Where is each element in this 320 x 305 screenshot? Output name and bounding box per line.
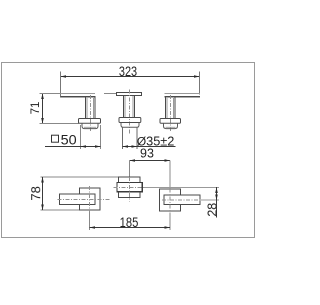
right valve square (plan view) [160,189,181,211]
svg-text:50: 50 [61,132,77,148]
extension line bottom of 71 [40,123,80,125]
dimension 323 arrows [61,75,200,78]
dimension 28 line [216,187,218,218]
dimension 71 arrows [41,94,44,124]
dimension square50 line with left shelf [45,146,101,148]
left lever (plan view) [60,194,96,205]
left handle flange (front view) [79,119,101,124]
right lever horizontal centerline / extension to 28 (plan view) [162,199,201,201]
dimension dia35 line with right shelf [123,146,176,148]
svg-text:185: 185 [120,215,139,230]
drawing border frame [2,63,255,238]
right lever (plan view) [164,195,200,205]
extension line 93 left (to plan view) [129,161,131,178]
spout body (plan view) [117,183,142,192]
left handle base inner line [84,126,96,128]
right handle flange (front view) [160,119,181,124]
spout horizontal axis line (plan view, extends to 28 dim) [114,187,145,189]
svg-text:93: 93 [140,147,154,161]
dimension 185 arrows [90,226,171,229]
left handle base ring (front view) [82,123,98,128]
dimension square50 extension left [80,125,82,149]
right handle base inner line [166,126,176,128]
right handle base ring (front view) [164,123,178,128]
left handle body (front view) [86,96,96,118]
svg-text:28: 28 [206,203,220,217]
spout tube left wall / extension [122,127,124,149]
spout plate (plan view) [119,177,140,198]
square symbol of square50 label [52,135,59,142]
spout nozzle lip line (front view) [104,93,117,95]
spout top plate (front view) [117,93,142,96]
left valve extension to 185 [89,212,91,230]
svg-text:78: 78 [28,186,43,200]
dimension 78 arrows [41,177,44,210]
right handle centerline [169,95,171,133]
dimension 323 line [61,76,200,78]
dimension dia35 arrows [123,145,138,148]
dimension 78 extension bottom [41,209,80,211]
dimension 78 extension top [41,176,120,178]
left handle lever (front view) [61,94,96,98]
dimension square50 arrows [81,145,101,148]
extension line left of 323 [60,72,62,98]
left valve vertical centerline (plan view) [89,186,91,212]
left handle centerline [89,95,91,133]
svg-text:71: 71 [30,102,42,115]
spout flange (front view) [119,118,141,123]
spout tube right wall / extension [136,127,138,149]
right handle body (front view) [166,96,176,118]
svg-text:323: 323 [119,64,137,80]
extension line top of 71 [40,93,63,95]
left lever horizontal centerline (plan view) [58,199,111,201]
dimension 78 line [42,177,44,210]
left valve square (plan view) [80,188,101,210]
dimension 93 line [130,160,171,162]
dimension 93 arrows [130,159,171,162]
extension line 93 right (to plan view) [169,161,171,189]
spout centerline [129,90,131,135]
right handle lever (front view) [165,94,201,98]
spout vertical centerline (plan view) [129,177,131,202]
spout column (front view) [124,96,135,118]
spout collar (front view) [121,123,139,128]
dimension 71 line [42,94,44,124]
extension line right of 323 [199,72,201,95]
dimension 185 line [90,227,171,229]
right valve extension to 185 [169,214,171,231]
dimension square50 extension right [100,125,102,149]
right valve vertical centerline (plan view) [169,189,171,214]
dimension 28 arrows [215,188,218,201]
